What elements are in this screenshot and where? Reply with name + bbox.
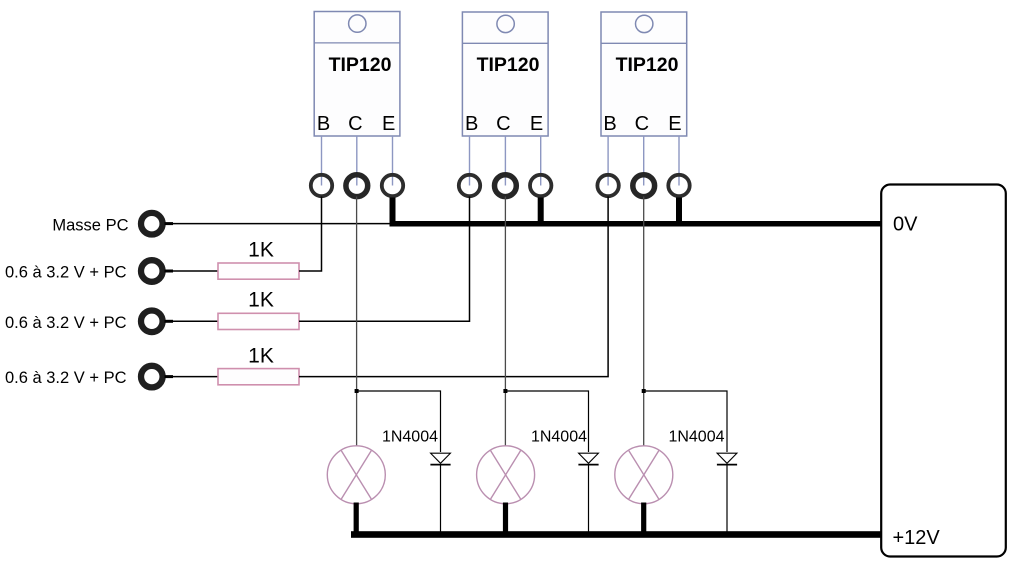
lamp L1 xyxy=(327,446,385,504)
svg-text:C: C xyxy=(496,113,510,135)
node Q3-B terminal xyxy=(597,175,618,196)
transistor Q3 TIP120 package xyxy=(601,12,687,136)
wire branch collector3 to D3 xyxy=(644,391,727,452)
svg-text:1K: 1K xyxy=(248,289,274,312)
wire lamp L2 to +12V bus (thick stub) xyxy=(503,503,508,533)
wire branch collector1 to D1 xyxy=(357,391,441,452)
svg-text:1K: 1K xyxy=(248,239,274,262)
node Q2-C terminal xyxy=(495,175,517,197)
wire Q3 emitter to 0V bus (thick stub) xyxy=(676,198,682,226)
wire +12V bus (thick) xyxy=(351,531,881,538)
wire lamp L1 to +12V bus (thick stub) xyxy=(354,503,359,533)
wire Q1 emitter to 0V bus (thick stub) xyxy=(390,198,396,226)
power supply box xyxy=(881,185,1006,557)
svg-text:1N4004: 1N4004 xyxy=(668,429,724,446)
wire 0V bus (thick) xyxy=(390,221,882,227)
wire Q2 base lead xyxy=(469,136,471,186)
wire Q3 base lead xyxy=(607,136,609,186)
wire Q3 collector lead xyxy=(643,136,645,186)
svg-text:C: C xyxy=(348,113,362,135)
svg-text:TIP120: TIP120 xyxy=(329,54,392,76)
svg-text:1K: 1K xyxy=(248,345,274,368)
wire Q1 emitter lead xyxy=(392,136,394,186)
svg-text:E: E xyxy=(668,113,681,135)
svg-text:+12V: +12V xyxy=(893,527,941,549)
wire J2 to R1 xyxy=(165,270,174,273)
transistor Q2 TIP120 package xyxy=(462,12,548,136)
node junction collector2/diode branch xyxy=(503,389,507,393)
wire R1 to Q1 base xyxy=(299,197,322,272)
svg-text:0V: 0V xyxy=(893,213,918,235)
wire branch collector2 to D2 xyxy=(505,391,588,452)
wire Q1 collector to lamp L1 xyxy=(356,197,358,447)
diode D1 1N4004 xyxy=(382,429,451,535)
node Q3-C terminal xyxy=(633,175,655,197)
node junction D3/+12V bus xyxy=(725,532,728,535)
wire Q3 collector to lamp L3 xyxy=(643,197,645,447)
svg-text:TIP120: TIP120 xyxy=(616,54,679,76)
wire Q2 collector to lamp L2 xyxy=(504,197,506,447)
wire Q2 emitter to 0V bus (thick stub) xyxy=(538,198,544,226)
node Q3-E terminal xyxy=(668,175,689,196)
wire Q2 collector lead xyxy=(504,136,506,186)
node Q2-B terminal xyxy=(459,175,480,196)
transistor Q1 TIP120 package xyxy=(314,12,400,137)
lamp L2 xyxy=(477,446,535,504)
node Q1-C terminal xyxy=(346,175,368,197)
svg-text:Masse PC: Masse PC xyxy=(52,216,128,234)
svg-text:B: B xyxy=(465,113,478,135)
diode D3 1N4004 xyxy=(668,429,737,535)
wire Q2 emitter lead xyxy=(540,136,542,186)
node junction D1/+12V bus xyxy=(439,532,442,535)
svg-text:TIP120: TIP120 xyxy=(477,54,540,76)
svg-text:0.6 à 3.2 V + PC: 0.6 à 3.2 V + PC xyxy=(5,369,127,387)
wire R2 to Q2 base xyxy=(299,197,470,322)
wire lamp L3 to +12V bus (thick stub) xyxy=(641,503,646,533)
svg-text:B: B xyxy=(603,113,616,135)
wire Masse PC to 0V bus xyxy=(165,222,174,225)
svg-text:E: E xyxy=(382,113,395,135)
pin labels Q1: B C E xyxy=(317,113,396,135)
svg-text:1N4004: 1N4004 xyxy=(382,429,438,446)
node Q2-E terminal xyxy=(530,175,551,196)
node Q1-B terminal xyxy=(311,175,332,196)
wire J4 to R3 xyxy=(165,375,174,378)
node junction collector1/diode branch xyxy=(355,389,359,393)
svg-text:C: C xyxy=(635,113,649,135)
node junction collector3/diode branch xyxy=(642,389,646,393)
svg-text:0.6 à 3.2 V + PC: 0.6 à 3.2 V + PC xyxy=(5,264,127,282)
svg-text:1N4004: 1N4004 xyxy=(531,429,587,446)
svg-text:0.6 à 3.2 V + PC: 0.6 à 3.2 V + PC xyxy=(5,314,127,332)
wire J3 to R2 xyxy=(165,320,174,323)
wire Q1 base lead xyxy=(321,136,323,186)
node junction D2/+12V bus xyxy=(587,532,590,535)
lamp L3 xyxy=(615,446,673,504)
node Q1-E terminal xyxy=(382,175,403,196)
diode D2 1N4004 xyxy=(531,429,599,535)
svg-text:B: B xyxy=(317,113,330,135)
pin labels Q2: B C E xyxy=(465,113,543,135)
wire Q1 collector lead xyxy=(356,136,358,186)
svg-text:E: E xyxy=(530,113,543,135)
pin labels Q3: B C E xyxy=(603,113,681,135)
wire Q3 emitter lead xyxy=(678,136,680,186)
wire R3 to Q3 base xyxy=(299,197,608,377)
